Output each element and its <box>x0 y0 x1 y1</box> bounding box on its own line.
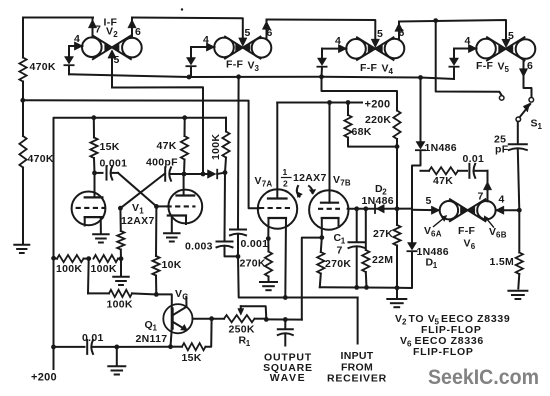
svg-text:4: 4 <box>335 35 341 47</box>
svg-text:220K: 220K <box>365 114 391 126</box>
wire <box>171 172 187 177</box>
pin 4 label <box>499 194 505 206</box>
label +200 (bottom left) <box>31 372 57 384</box>
wire <box>266 218 271 241</box>
wire <box>154 204 169 209</box>
svg-text:F-F: F-F <box>226 59 244 71</box>
wire <box>395 139 400 149</box>
triode V1b <box>167 174 203 223</box>
svg-text:6: 6 <box>399 27 405 39</box>
svg-text:0.003: 0.003 <box>185 241 213 253</box>
pin 4 label <box>203 34 209 46</box>
capacitor 0.01 (bottom left) <box>54 332 117 354</box>
label 1/2 12AX7 with arrows <box>282 167 327 198</box>
wire <box>266 317 302 322</box>
switch S1 blade <box>520 103 531 117</box>
label 22M <box>372 254 393 266</box>
wire <box>128 18 136 38</box>
svg-text:7: 7 <box>478 191 484 203</box>
svg-text:270K: 270K <box>240 258 266 270</box>
wire <box>112 87 203 174</box>
label F-F V3 <box>226 59 260 74</box>
label V6A with leader <box>424 215 447 238</box>
label V1 12AX7 <box>121 202 155 227</box>
svg-text:F-F: F-F <box>476 60 494 72</box>
svg-text:5: 5 <box>377 28 383 40</box>
ground <box>93 234 109 242</box>
ground <box>113 277 129 285</box>
label F-F V5 <box>476 60 510 74</box>
diode D2 1N486 <box>362 183 394 213</box>
wire <box>277 100 362 105</box>
wire <box>193 316 225 321</box>
diode (V2 input) <box>64 57 73 66</box>
note V2-V5 EECO Z8339 flip-flop <box>395 313 510 327</box>
resistor 270K (V7B) <box>317 238 351 288</box>
resistor 22M <box>362 209 369 288</box>
wire <box>517 150 522 213</box>
capacitor 400pF (coupling) <box>146 157 178 181</box>
wire <box>483 171 491 202</box>
capacitor 0.01 (V6 row) <box>463 153 485 178</box>
wire <box>23 17 93 19</box>
wire <box>112 172 118 174</box>
pin 5 label <box>426 195 432 207</box>
wire <box>51 115 226 369</box>
svg-text:400pF: 400pF <box>146 157 178 169</box>
svg-text:0.001: 0.001 <box>100 158 128 170</box>
wire <box>239 38 247 46</box>
resistor 220K <box>365 111 401 140</box>
wire <box>114 345 119 367</box>
svg-text:47K: 47K <box>157 140 177 152</box>
watermark SeekIC.com <box>428 365 539 389</box>
wire <box>453 67 455 79</box>
svg-text:6B: 6B <box>496 231 507 240</box>
wire <box>68 46 70 57</box>
resistor 1.5M <box>516 210 523 288</box>
svg-text:68K: 68K <box>352 126 372 138</box>
svg-text:2N117: 2N117 <box>136 333 168 345</box>
wire <box>190 67 192 78</box>
wire <box>108 50 116 88</box>
wire <box>20 82 25 137</box>
wire <box>496 206 520 214</box>
wire <box>321 67 324 77</box>
resistor 27K <box>373 209 401 288</box>
wire <box>348 206 412 211</box>
wire <box>475 170 488 172</box>
potentiometer 250K R1 <box>224 306 269 322</box>
ground <box>508 291 527 299</box>
pin 6 label <box>399 27 405 39</box>
label I-F V2 <box>104 17 119 40</box>
wire <box>118 206 123 211</box>
svg-text:5: 5 <box>245 27 251 39</box>
wire <box>396 147 398 209</box>
svg-text:F-F: F-F <box>458 225 476 237</box>
svg-text:0.01: 0.01 <box>463 153 485 165</box>
wire <box>320 285 400 290</box>
svg-text:15K: 15K <box>100 141 120 153</box>
wire <box>395 18 506 42</box>
diode (V4 input) <box>317 58 326 67</box>
svg-text:1: 1 <box>153 324 158 333</box>
pin 5 label <box>245 27 251 39</box>
ground <box>260 282 277 290</box>
svg-text:10K: 10K <box>162 259 182 271</box>
svg-text:12AX7: 12AX7 <box>121 215 155 227</box>
wire <box>436 21 502 95</box>
svg-text:1: 1 <box>283 167 288 177</box>
label V6 <box>464 238 476 252</box>
svg-text:27K: 27K <box>373 228 393 240</box>
wire <box>88 18 96 38</box>
wire <box>397 252 412 288</box>
diode 1N486 (upper) <box>416 142 457 155</box>
wire <box>23 100 259 208</box>
svg-text:6: 6 <box>135 26 141 38</box>
wire <box>502 39 510 47</box>
capacitor 0.003 (input coupling) <box>185 173 238 257</box>
label +200 <box>365 99 391 111</box>
svg-text:5: 5 <box>114 54 120 66</box>
svg-text:6A: 6A <box>431 230 442 239</box>
resistor 100K (grid leak) <box>117 208 124 259</box>
wire <box>321 49 323 58</box>
wire <box>519 59 531 97</box>
diode (V1 to V7A feed) <box>208 170 218 179</box>
wire <box>371 39 379 47</box>
wire <box>283 218 288 300</box>
wire <box>84 217 86 225</box>
svg-text:5: 5 <box>426 195 432 207</box>
resistor 470K (lower) <box>19 136 54 168</box>
svg-text:pF: pF <box>495 144 509 156</box>
svg-text:6: 6 <box>267 27 273 39</box>
resistor 470K (upper) <box>19 58 56 82</box>
diode (V5 input) <box>449 58 458 67</box>
wire <box>517 122 519 144</box>
svg-text:7B: 7B <box>340 179 351 188</box>
svg-text:WAVE: WAVE <box>270 372 307 384</box>
svg-text:2: 2 <box>113 30 118 39</box>
wire <box>22 18 24 58</box>
pin 5 label <box>508 30 514 42</box>
capacitor C1 7pF <box>334 209 365 288</box>
svg-text:2: 2 <box>402 318 407 327</box>
svg-text:RECEIVER: RECEIVER <box>327 373 387 385</box>
label VC <box>175 288 188 302</box>
note V6 EECO Z8336 <box>400 335 484 349</box>
resistor 10K <box>152 206 181 294</box>
svg-text:0.01: 0.01 <box>82 332 104 344</box>
wire <box>412 206 440 214</box>
label INPUT FROM RECEIVER <box>327 350 387 385</box>
svg-text:+200: +200 <box>365 99 391 111</box>
wire <box>154 292 172 309</box>
transistor Q1 2N117 <box>163 297 192 347</box>
resistor 100K (base feed) <box>88 259 156 311</box>
label V7A <box>255 175 273 189</box>
ground <box>164 233 180 241</box>
label F-F V4 <box>360 62 394 76</box>
wire <box>118 173 156 207</box>
svg-text:270K: 270K <box>325 258 351 270</box>
flip-flop V5 <box>476 37 535 60</box>
resistor 100K (row left) <box>54 255 89 275</box>
note flip-flop line2 <box>421 324 482 336</box>
svg-text:4: 4 <box>203 34 209 46</box>
pin 6 label <box>135 26 141 38</box>
capacitor 0.001 (coupling) <box>100 158 128 180</box>
resistor 15K (emitter-base) <box>168 319 212 364</box>
resistor 47K (V1 plate) <box>157 118 189 174</box>
ground <box>387 288 406 307</box>
label V6B with leader <box>484 216 507 240</box>
label F-F (V6) <box>458 225 476 237</box>
label 1.5M <box>490 256 515 268</box>
wire <box>322 44 347 52</box>
wire <box>322 77 398 111</box>
wire <box>453 49 455 59</box>
capacitor output coupling <box>278 320 293 346</box>
wire <box>190 47 192 58</box>
svg-text:100K: 100K <box>107 299 133 311</box>
svg-text:100K: 100K <box>210 134 222 160</box>
wire <box>100 217 102 234</box>
pin 6 label <box>527 60 533 72</box>
wire <box>185 216 187 225</box>
resistor 100K (row right) <box>86 255 121 275</box>
switch S1 pole <box>516 117 521 122</box>
ground <box>108 366 125 374</box>
svg-text:1N486: 1N486 <box>362 195 394 207</box>
pin 4 label <box>465 35 471 47</box>
wire <box>92 171 102 176</box>
ground <box>14 245 29 253</box>
svg-text:1: 1 <box>246 339 251 348</box>
svg-text:+200: +200 <box>31 372 57 384</box>
svg-text:C: C <box>182 293 188 302</box>
wire <box>132 18 243 41</box>
pin 5 label <box>114 54 120 66</box>
flip-flop V4 <box>346 37 404 60</box>
svg-text:470K: 470K <box>28 153 54 165</box>
label OUTPUT SQUARE WAVE <box>263 352 313 385</box>
svg-text:7A: 7A <box>262 180 273 189</box>
switch S1 contact <box>529 98 534 103</box>
wire <box>69 74 454 80</box>
svg-text:4: 4 <box>499 194 505 206</box>
svg-text:1: 1 <box>538 122 543 131</box>
pin 7 label <box>95 24 101 36</box>
wire <box>217 170 227 175</box>
svg-text:1: 1 <box>433 261 438 270</box>
svg-text:6: 6 <box>407 340 412 349</box>
wire <box>117 346 171 348</box>
svg-text:4: 4 <box>389 67 394 76</box>
resistor 68K <box>344 103 397 147</box>
label V7B <box>333 174 351 188</box>
wire <box>184 172 208 177</box>
wire <box>420 78 422 142</box>
svg-text:SeekIC.com: SeekIC.com <box>428 365 539 389</box>
svg-text:100K: 100K <box>91 263 117 275</box>
label S1 <box>531 118 543 132</box>
label Q1 <box>145 319 158 333</box>
svg-text:1N486: 1N486 <box>425 142 457 154</box>
svg-text:7: 7 <box>95 24 101 36</box>
svg-text:4: 4 <box>74 33 80 45</box>
wire <box>238 256 358 297</box>
svg-text:INPUT: INPUT <box>341 350 374 362</box>
svg-text:F-F: F-F <box>360 62 378 74</box>
diode (V3 input) <box>186 58 195 67</box>
svg-text:6: 6 <box>527 60 533 72</box>
svg-text:2: 2 <box>283 179 288 189</box>
svg-text:5: 5 <box>508 30 514 42</box>
svg-text:12AX7: 12AX7 <box>293 172 327 184</box>
wire <box>421 170 430 172</box>
resistor 270K (V7A) <box>240 239 273 282</box>
pin 4 label <box>335 35 341 47</box>
svg-text:7: 7 <box>337 245 343 257</box>
wire <box>69 42 83 50</box>
pin 6 label <box>267 27 273 39</box>
label 2N117 <box>136 333 168 345</box>
svg-text:470K: 470K <box>30 61 56 73</box>
flip-flop V6 <box>440 199 496 221</box>
svg-text:5: 5 <box>505 65 510 74</box>
svg-text:1.5M: 1.5M <box>490 256 515 268</box>
capacitor 25pF <box>494 134 527 156</box>
wire <box>22 168 24 245</box>
svg-text:6: 6 <box>471 242 476 251</box>
resistor 47K (V6 row) <box>429 167 458 187</box>
wire <box>68 66 70 75</box>
triode V7B <box>309 103 348 230</box>
capacitor 0.001 (input to V7 cathode rail) <box>230 77 268 259</box>
speck <box>181 8 183 10</box>
svg-text:22M: 22M <box>372 254 393 266</box>
wire <box>191 43 215 51</box>
wire <box>119 256 124 276</box>
switch S1 contact <box>499 96 504 101</box>
wire <box>458 170 467 172</box>
triode V7A <box>258 103 297 229</box>
flip-flop V2 <box>82 36 142 60</box>
note flip-flop line4 <box>413 346 474 358</box>
diode 1N486 D1 <box>407 209 449 271</box>
svg-text:4: 4 <box>465 35 471 47</box>
wire <box>171 216 173 234</box>
wire <box>357 298 359 344</box>
wire <box>412 151 421 209</box>
pin 4 label <box>74 33 80 45</box>
svg-text:3: 3 <box>255 64 260 73</box>
pin 7 label <box>478 191 484 203</box>
wire <box>302 238 322 320</box>
wire <box>120 174 164 208</box>
wire <box>454 44 477 52</box>
flip-flop V3 <box>214 37 271 59</box>
svg-text:0.001: 0.001 <box>241 238 269 250</box>
resistor 15K (V1 plate) <box>90 118 119 173</box>
svg-text:100K: 100K <box>56 263 82 275</box>
svg-text:FLIP-FLOP: FLIP-FLOP <box>413 346 474 358</box>
label 250K R1 <box>229 324 255 349</box>
resistor 100K (rotated, box right edge) <box>210 118 230 173</box>
pin 5 label <box>377 28 383 40</box>
svg-text:15K: 15K <box>182 352 202 364</box>
wire <box>319 218 338 240</box>
svg-text:47K: 47K <box>433 175 453 187</box>
triode V1a <box>72 173 106 225</box>
wire <box>262 20 375 42</box>
